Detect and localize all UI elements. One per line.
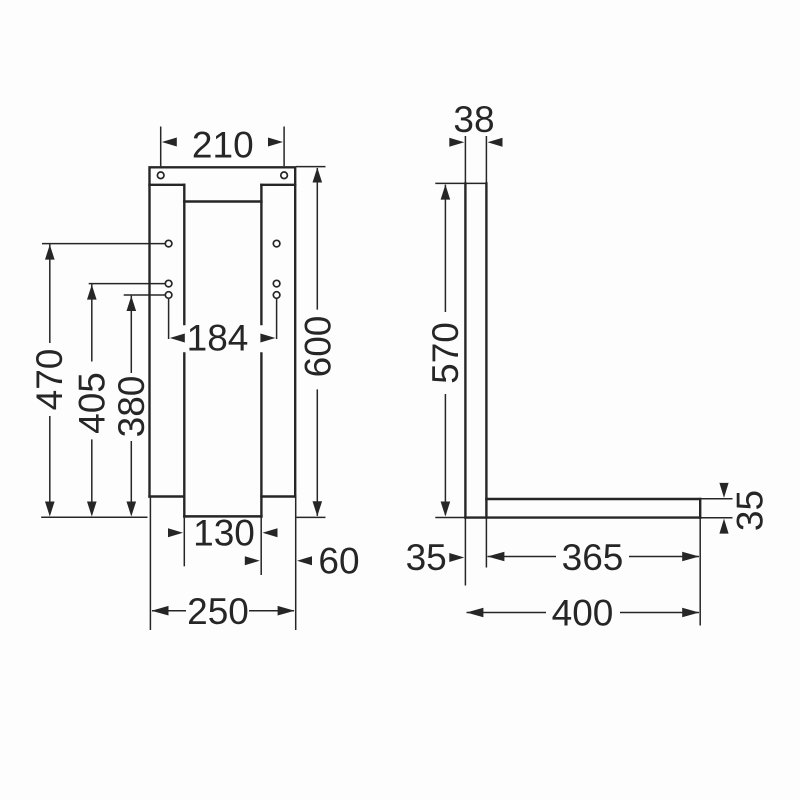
dim 130 extension right [260, 517, 262, 576]
dim 184 extension right (below hole) [276, 299, 278, 339]
hole left-3 [165, 292, 172, 299]
central back plate bottom edge [184, 515, 261, 518]
dim 570 bottom extension [435, 517, 465, 519]
dim 470 arrow down [45, 502, 55, 517]
dim 365 line right part [629, 556, 699, 558]
dim 35 right arrow up [719, 519, 728, 534]
dim 365 arrow right [682, 552, 699, 562]
dim 405 leader line [89, 283, 166, 285]
svg-text:380: 380 [111, 376, 152, 438]
svg-text:250: 250 [187, 591, 249, 632]
hole top-right [281, 172, 288, 179]
dim 130 arrow left [168, 528, 183, 537]
dim 250 arrow right [278, 606, 295, 616]
dim 35 left arrow [449, 553, 464, 562]
hole top-left [157, 172, 164, 179]
svg-text:38: 38 [453, 99, 494, 140]
dim 184 arrow right [260, 334, 275, 343]
dim 184 arrow left [170, 334, 185, 343]
dim 380 leader line [124, 294, 166, 296]
svg-text:210: 210 [192, 125, 254, 166]
right end extension below (x=700.2) [699, 518, 701, 626]
dim 400 line right part [620, 612, 699, 614]
dim 210 extension line right [283, 127, 285, 167]
dim 60 arrow right [297, 556, 312, 565]
hole left-1 [165, 240, 172, 247]
dim 470 arrow up [45, 245, 55, 260]
top plate bottom edge left segment [150, 184, 185, 186]
hole left-2 [165, 280, 172, 287]
dim 38 extension left [464, 136, 466, 183]
svg-text:400: 400 [552, 593, 614, 634]
svg-text:130: 130 [193, 513, 255, 554]
dim 38 arrow left [449, 138, 464, 147]
dim 35 right arrow down [719, 483, 728, 498]
svg-text:184: 184 [187, 318, 249, 359]
dim 38 extension right [485, 136, 487, 183]
dim 380 arrow up [127, 296, 137, 311]
left rail inner edge lower part [183, 354, 185, 517]
dim 380 arrow down [127, 502, 137, 517]
right rail bottom edge [261, 495, 295, 497]
left vertical extension below (x=465.4) [464, 518, 466, 586]
dim 60 arrow left [245, 556, 260, 565]
dim 405 arrow up [87, 285, 97, 300]
svg-text:600: 600 [298, 316, 339, 378]
dim 400 arrow right [682, 608, 699, 618]
dim 35 right top extension [701, 498, 733, 500]
hole right-1 [273, 240, 280, 247]
dim 600 bottom extension [297, 516, 326, 518]
bottom edge of L profile [465, 516, 700, 518]
dim 600 line lower [316, 389, 318, 516]
dim 250 arrow left [152, 606, 169, 616]
svg-text:365: 365 [562, 537, 624, 578]
dim 570 line lower [444, 394, 446, 515]
dim 600 top extension [296, 166, 326, 168]
dim 130 extension left [183, 518, 185, 567]
bottom reference baseline left [41, 516, 147, 518]
dim 380 line upper [130, 296, 132, 373]
dim 570 top extension [435, 182, 465, 184]
dim 470 leader line [42, 243, 165, 245]
dim 400 line left part [467, 612, 547, 614]
horizontal plate top edge [486, 498, 700, 500]
vertical plate left edge [464, 183, 466, 517]
dim 570 arrow down [441, 502, 451, 517]
svg-text:35: 35 [730, 490, 771, 531]
svg-text:60: 60 [318, 541, 359, 582]
right rail inner edge lower part [260, 354, 262, 517]
hole right-3 [273, 292, 280, 299]
dim 365 line left part [488, 556, 557, 558]
horizontal plate right end edge [699, 499, 701, 518]
top plate bottom edge right segment [261, 184, 295, 186]
svg-text:470: 470 [29, 349, 70, 411]
left rail bottom edge [150, 495, 185, 497]
central channel top edge [184, 200, 261, 203]
dim 210 arrow left [162, 138, 177, 147]
dim 210 extension line left [160, 127, 162, 167]
dim 250 extension left [149, 497, 151, 630]
dim 365 arrow left [487, 552, 504, 562]
dim 570 arrow up [441, 185, 451, 200]
dim 470 line lower [49, 416, 51, 515]
left rail inner edge upper part [183, 185, 185, 324]
dim 600 arrow down [313, 501, 323, 516]
vertical plate right edge [485, 183, 487, 517]
dim 600 line upper [316, 168, 318, 310]
dim 405 arrow down [87, 502, 97, 517]
hole right-2 [273, 280, 280, 287]
left view outline: top plate and outer rails [150, 167, 296, 496]
dim 38 arrow right [488, 138, 503, 147]
svg-text:570: 570 [425, 322, 466, 384]
dim 405 line upper [91, 284, 93, 361]
dim 35 right bottom extension [701, 517, 733, 519]
dim 250 line right part [249, 610, 294, 612]
dim 405 line lower [91, 439, 93, 514]
dim 210 arrow right [268, 138, 283, 147]
dim 600 arrow up [313, 168, 323, 183]
dim 470 line upper [49, 244, 51, 343]
dim 184 extension left (below hole) [168, 299, 170, 339]
vertical plate top edge [465, 182, 486, 184]
dim 400 arrow left [466, 608, 483, 618]
right rail inner edge upper part [260, 185, 262, 324]
inner corner extension below (x=486.4) [485, 518, 487, 568]
dim 250 line left part [152, 610, 186, 612]
svg-text:405: 405 [72, 372, 113, 434]
dim 250 extension right [295, 497, 297, 630]
svg-text:35: 35 [406, 537, 447, 578]
dim 570 line upper [444, 185, 446, 312]
dim 130 arrow right [263, 528, 278, 537]
dim 380 line lower [130, 441, 132, 515]
